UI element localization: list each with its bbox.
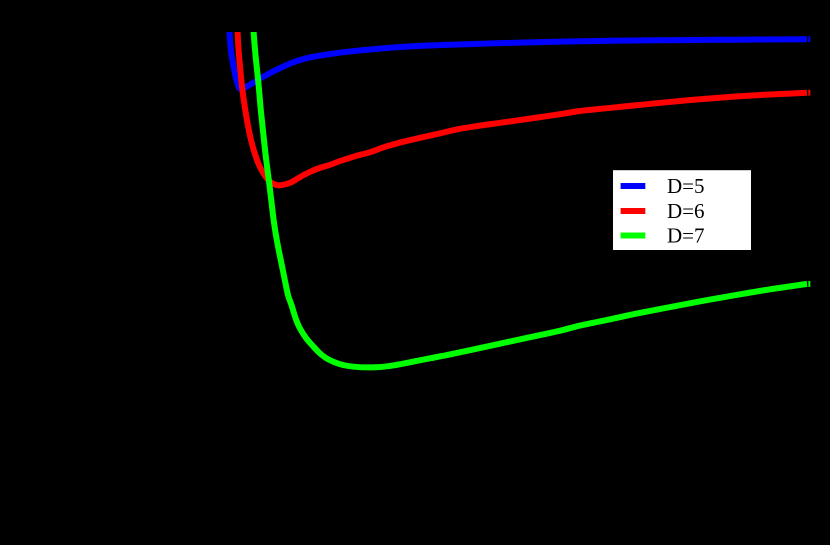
curve D=7 (green) [253,26,807,367]
legend box [613,170,751,250]
legend sample D=7 [621,233,646,239]
svg-text:D=7: D=7 [667,224,705,248]
curve D=6 end dash [808,90,810,96]
svg-text:D=6: D=6 [667,199,705,223]
curve D=5 end dash [808,36,810,42]
legend sample D=6 [621,208,646,214]
legend sample D=5 [621,183,646,189]
curve D=7 end dash [808,281,810,287]
curve D=6 (red) [237,26,807,185]
curve D=5 (blue) [229,26,807,89]
svg-text:D=5: D=5 [667,174,705,198]
